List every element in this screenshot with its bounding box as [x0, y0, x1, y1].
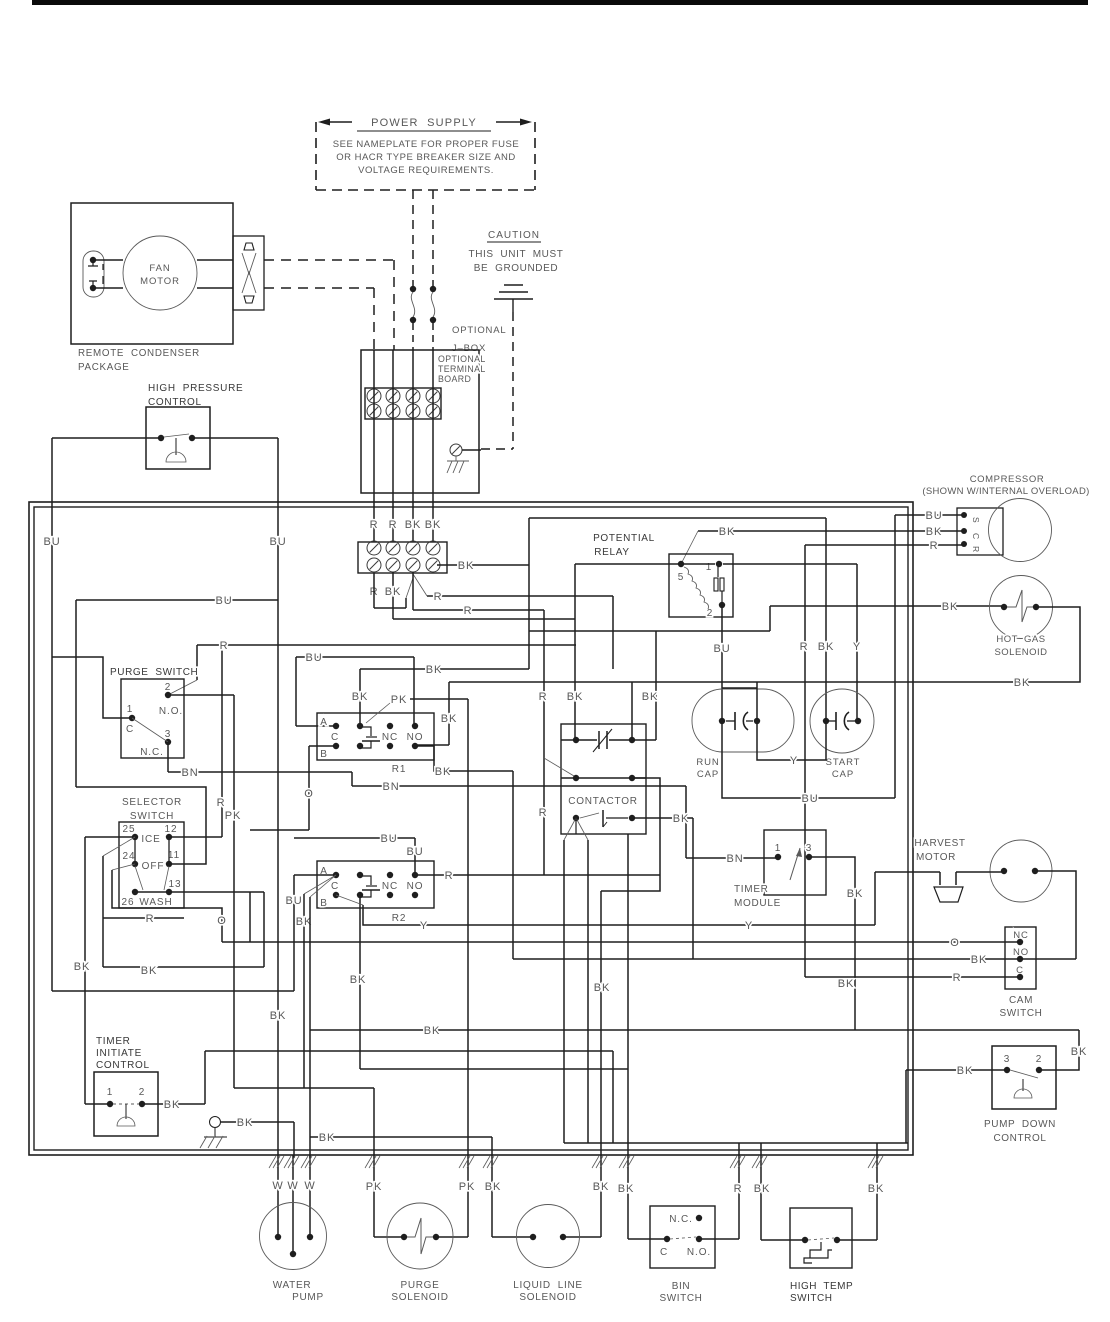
svg-text:MODULE: MODULE — [734, 898, 781, 909]
wire BK lower right bus2 — [564, 1142, 908, 1144]
potential relay contact — [717, 564, 719, 577]
svg-text:C: C — [971, 533, 981, 539]
svg-text:BN: BN — [181, 767, 198, 779]
svg-text:RUN: RUN — [696, 757, 719, 768]
svg-text:PUMP: PUMP — [292, 1292, 324, 1303]
svg-text:B: B — [320, 749, 328, 760]
wire W exits — [277, 1155, 279, 1237]
svg-text:Y: Y — [745, 920, 753, 932]
svg-text:INITIATE: INITIATE — [96, 1048, 142, 1059]
svg-text:BK: BK — [352, 691, 368, 703]
svg-text:B: B — [320, 898, 328, 909]
wire dashed J-box to terminal board — [412, 323, 414, 350]
svg-text:R: R — [539, 691, 548, 703]
power supply arrows — [322, 121, 352, 123]
svg-text:OPTIONAL: OPTIONAL — [452, 325, 506, 336]
disconnect symbol upper — [244, 243, 254, 250]
svg-text:TIMER: TIMER — [96, 1036, 131, 1047]
svg-text:BK: BK — [141, 965, 157, 977]
potential relay terminal 1 — [716, 561, 722, 567]
pump down switch arm — [1010, 1070, 1038, 1078]
svg-text:NC: NC — [382, 881, 398, 892]
svg-text:NO: NO — [407, 881, 424, 892]
wire BK liquid right — [592, 1156, 607, 1168]
wire BK 25 alt riser — [103, 837, 135, 856]
potential relay coil — [684, 567, 709, 609]
wire dashed fan feed lower — [264, 287, 374, 289]
svg-text:BK: BK — [1014, 677, 1030, 689]
svg-text:PACKAGE: PACKAGE — [78, 362, 130, 373]
svg-text:BK: BK — [485, 1181, 501, 1193]
svg-text:W: W — [272, 1180, 283, 1192]
wire R selector ICE — [221, 645, 223, 837]
svg-text:3: 3 — [165, 729, 171, 740]
svg-text:CAP: CAP — [832, 769, 854, 780]
wire BK R2 down2 — [309, 897, 311, 1137]
high pressure control box — [146, 407, 210, 469]
svg-text:BK: BK — [435, 766, 451, 778]
wire BN purge 3 — [167, 742, 169, 772]
wire BU high pressure right — [192, 437, 278, 439]
wire purge 2 to PK vertical — [168, 694, 234, 696]
potential relay terminal 5 — [678, 561, 684, 567]
svg-text:VOLTAGE REQUIREMENTS.: VOLTAGE REQUIREMENTS. — [358, 165, 494, 176]
wire BK to start cap left — [825, 518, 827, 721]
wire BK ICE 25 left — [85, 836, 135, 838]
run cap outline — [692, 689, 794, 752]
potential relay terminal 2 — [719, 602, 725, 608]
svg-text:COMPRESSOR: COMPRESSOR — [970, 474, 1045, 485]
svg-text:Y: Y — [420, 920, 428, 932]
wire Y harvest left — [875, 871, 940, 873]
svg-text:Y: Y — [853, 641, 861, 653]
harvest motor circle — [990, 840, 1052, 902]
svg-text:BK: BK — [164, 1099, 180, 1111]
svg-text:BK: BK — [319, 1132, 335, 1144]
terminal strip inner — [358, 542, 447, 573]
high temp thermal element — [804, 1242, 832, 1263]
svg-text:WASH: WASH — [139, 897, 172, 908]
J-box splice curls — [411, 292, 434, 317]
wire BK pump down right — [1039, 1030, 1079, 1070]
compressor terminal box — [957, 508, 1003, 555]
svg-text:POTENTIAL: POTENTIAL — [593, 533, 655, 544]
svg-text:HIGH PRESSURE: HIGH PRESSURE — [148, 383, 243, 394]
ground circle lower — [210, 1117, 221, 1128]
svg-text:R: R — [800, 641, 809, 653]
wire R R2 NO — [415, 874, 660, 876]
svg-text:C: C — [331, 881, 339, 892]
wire BK R2 A leaders — [304, 875, 336, 894]
purge switch arm — [132, 718, 168, 742]
wire BK strip to right — [437, 564, 529, 566]
timer initiate control box — [94, 1072, 158, 1136]
svg-text:CAUTION: CAUTION — [488, 230, 540, 241]
svg-text:BK: BK — [426, 664, 442, 676]
wire dashed caution ground — [512, 312, 514, 449]
svg-text:N.O.: N.O. — [159, 706, 183, 717]
svg-text:BK: BK — [1071, 1046, 1087, 1058]
start cap circle — [810, 689, 874, 753]
svg-text:CONTROL: CONTROL — [993, 1133, 1046, 1144]
svg-text:BK: BK — [618, 1183, 634, 1195]
wire BK contactor coil right — [632, 817, 693, 819]
wire BK ground — [221, 1121, 294, 1123]
svg-text:R: R — [389, 519, 398, 531]
svg-text:BK: BK — [237, 1117, 253, 1129]
wire BK cam NO — [513, 958, 1076, 960]
svg-text:R1: R1 — [392, 764, 407, 775]
wire BU PR terminal2 to run cap — [721, 605, 723, 721]
wire BU R2 A — [294, 874, 336, 876]
water pump circle — [260, 1203, 327, 1270]
main enclosure outer box — [29, 502, 913, 1155]
wire fan motor upper — [96, 259, 123, 261]
wire Y R2 B — [336, 895, 363, 905]
svg-text:BK: BK — [673, 813, 689, 825]
wire BU run cap bottom — [722, 721, 895, 798]
wire BK 26 riser — [263, 892, 265, 967]
R1 relay box — [317, 713, 434, 760]
wire BK TIC bus — [205, 1050, 613, 1052]
liquid line solenoid circle — [517, 1205, 580, 1268]
svg-text:SWITCH: SWITCH — [790, 1293, 832, 1304]
wire BK R1 NO riser — [627, 834, 629, 1239]
contactor coil row — [573, 815, 579, 821]
wire R compressor R — [805, 544, 964, 546]
svg-text:MOTOR: MOTOR — [916, 852, 956, 863]
svg-text:S: S — [971, 517, 981, 523]
svg-text:1: 1 — [127, 704, 133, 715]
svg-text:SOLENOID: SOLENOID — [519, 1292, 576, 1303]
wire BK bin left — [619, 1156, 634, 1168]
wire Y vertical to start cap — [856, 564, 858, 721]
svg-text:J–BOX: J–BOX — [452, 343, 486, 354]
svg-text:1: 1 — [775, 843, 781, 854]
wire dashed fan feed upper — [264, 259, 394, 261]
svg-text:PK: PK — [459, 1181, 475, 1193]
wire O branch riser — [249, 892, 251, 942]
svg-text:O: O — [304, 788, 313, 800]
wire BU R1 NO feed — [413, 657, 415, 726]
power supply dashed box — [315, 122, 317, 190]
junction dots optional J-box bottom — [410, 317, 416, 323]
svg-text:N.C.: N.C. — [669, 1214, 693, 1225]
svg-text:BU: BU — [285, 895, 302, 907]
wire BK pump down bus — [310, 1029, 1079, 1031]
wire BU high pressure left — [52, 437, 161, 439]
svg-text:N.O.: N.O. — [687, 1247, 711, 1258]
contactor NC contact row — [561, 739, 597, 741]
wire R vertical right — [804, 545, 806, 977]
wire O selector — [112, 870, 222, 942]
svg-text:BK: BK — [926, 526, 942, 538]
wire BK 25 riser down — [84, 837, 86, 1104]
wire R under selector — [103, 917, 184, 919]
svg-text:R: R — [220, 640, 229, 652]
compressor circle — [989, 499, 1052, 562]
svg-text:BU: BU — [305, 652, 322, 664]
wire R strip col1 down — [373, 573, 375, 608]
svg-text:BK: BK — [847, 888, 863, 900]
wire PK exit left — [373, 1088, 375, 1237]
svg-text:25: 25 — [123, 824, 136, 835]
svg-text:SWITCH: SWITCH — [130, 811, 174, 822]
wire selector 26 13 row — [135, 891, 264, 893]
wire Y between caps — [757, 721, 826, 760]
svg-text:R: R — [434, 591, 443, 603]
R2 relay box — [317, 861, 434, 908]
svg-text:BK: BK — [405, 519, 421, 531]
svg-text:MOTOR: MOTOR — [140, 276, 180, 287]
R1 coil symbol — [360, 727, 371, 736]
svg-text:12: 12 — [165, 824, 178, 835]
svg-text:2: 2 — [165, 682, 171, 693]
R2 coil symbol — [360, 876, 371, 885]
svg-text:BN: BN — [382, 781, 399, 793]
wire OFF 11 — [76, 787, 206, 864]
wire R purge riser — [196, 645, 198, 680]
svg-text:CONTACTOR: CONTACTOR — [568, 796, 638, 807]
svg-text:SWITCH: SWITCH — [659, 1293, 702, 1304]
wire PR terminal1 left drop — [575, 563, 715, 565]
svg-text:BU: BU — [801, 793, 818, 805]
wire dashed power feed L2 — [432, 190, 434, 286]
wires through terminal board — [373, 350, 375, 542]
wire BK lower right bus — [310, 1136, 492, 1138]
svg-text:13: 13 — [169, 879, 182, 890]
svg-text:CAM: CAM — [1009, 995, 1033, 1006]
svg-text:R: R — [953, 972, 962, 984]
svg-text:O: O — [950, 937, 959, 949]
svg-text:R: R — [971, 546, 981, 552]
svg-text:FAN: FAN — [149, 263, 170, 274]
svg-text:R2: R2 — [392, 913, 407, 924]
svg-text:THIS UNIT MUST: THIS UNIT MUST — [469, 249, 564, 260]
svg-text:W: W — [304, 1180, 315, 1192]
svg-text:CAP: CAP — [697, 769, 719, 780]
svg-text:BK: BK — [754, 1183, 770, 1195]
svg-text:C: C — [331, 732, 339, 743]
svg-text:ICE: ICE — [141, 834, 160, 845]
start cap capacitor — [823, 718, 829, 724]
wire BK high temp right — [876, 1143, 878, 1240]
svg-text:R: R — [146, 913, 155, 925]
svg-text:C: C — [126, 724, 134, 735]
wire BK liquid left — [491, 1137, 493, 1237]
svg-text:5: 5 — [678, 572, 684, 583]
wire BU horizontal to purge area — [76, 599, 278, 601]
svg-text:BK: BK — [424, 1025, 440, 1037]
svg-text:BK: BK — [425, 519, 441, 531]
wire selector 24 leader — [112, 864, 135, 870]
harvest motor mount — [939, 872, 941, 885]
wire R cam C — [805, 976, 1020, 978]
wire BK pump down left — [906, 1069, 1007, 1071]
fan motor plug — [83, 251, 104, 297]
svg-text:SEE NAMEPLATE FOR PROPER FUSE: SEE NAMEPLATE FOR PROPER FUSE — [333, 139, 519, 150]
selector switch box — [119, 822, 184, 908]
svg-text:NO: NO — [407, 732, 424, 743]
wire BK W2 drop — [293, 1122, 295, 1158]
wire dashed power feed L1 — [412, 190, 414, 286]
wire contactor row2 right — [601, 778, 660, 891]
wire BU left vertical — [51, 438, 53, 991]
selector switch arms — [135, 866, 143, 890]
purge solenoid contacts — [401, 1234, 407, 1240]
wire contactor coil drops — [563, 840, 565, 1143]
wire O R1 C — [309, 745, 336, 747]
svg-text:PK: PK — [366, 1181, 382, 1193]
wire BK R1 NO bottom — [415, 746, 513, 771]
svg-text:OPTIONAL: OPTIONAL — [438, 354, 486, 364]
svg-text:(SHOWN W/INTERNAL OVERLOAD): (SHOWN W/INTERNAL OVERLOAD) — [922, 486, 1089, 497]
svg-text:BK: BK — [270, 1010, 286, 1022]
svg-text:BK: BK — [350, 974, 366, 986]
svg-text:BK: BK — [441, 713, 457, 725]
svg-text:LIQUID LINE: LIQUID LINE — [513, 1280, 583, 1291]
selector switch bars — [134, 837, 136, 864]
svg-text:OR HACR TYPE BREAKER SIZE AND: OR HACR TYPE BREAKER SIZE AND — [336, 152, 516, 163]
svg-text:BK: BK — [594, 982, 610, 994]
svg-text:NC: NC — [382, 732, 398, 743]
pump down control box — [992, 1046, 1056, 1109]
wire BK strip col2 jog — [392, 572, 394, 619]
svg-text:BU: BU — [380, 833, 397, 845]
wire BK TIC 2 — [142, 1103, 205, 1105]
wire BU right vertical — [277, 438, 279, 1155]
harvest motor terminals — [1001, 868, 1007, 874]
liquid line solenoid contacts — [530, 1234, 536, 1240]
svg-text:BU: BU — [406, 846, 423, 858]
svg-text:HARVEST: HARVEST — [914, 838, 965, 849]
wire BK timer 3 — [809, 857, 855, 1030]
disconnect box — [233, 236, 264, 310]
svg-text:26: 26 — [122, 897, 135, 908]
ground screw terminal board — [450, 444, 462, 456]
svg-text:R: R — [930, 540, 939, 552]
contactor box — [561, 724, 646, 834]
svg-text:OFF: OFF — [142, 861, 165, 872]
wire BK compressor C — [698, 530, 964, 532]
potential relay box — [669, 554, 733, 617]
wire purge C — [52, 657, 132, 718]
wire BK R2 coil bottom — [359, 895, 361, 1069]
svg-text:SELECTOR: SELECTOR — [122, 797, 182, 808]
wire R ICE 12 right — [169, 836, 222, 838]
chassis ground symbol lower — [214, 1128, 216, 1137]
wire R mid — [427, 595, 613, 597]
wire BN timer — [686, 857, 778, 859]
svg-text:11: 11 — [168, 850, 180, 861]
wire BK R2 down — [303, 894, 305, 1088]
wire BK W3 drop — [309, 1137, 311, 1158]
svg-text:WATER: WATER — [273, 1280, 312, 1291]
svg-text:R: R — [464, 605, 473, 617]
svg-text:BK: BK — [838, 978, 854, 990]
svg-text:BK: BK — [567, 691, 583, 703]
wire BK liquid feed drop — [600, 891, 602, 1237]
wire BU R2 NO — [294, 837, 415, 839]
hot gas solenoid contacts — [1001, 604, 1007, 610]
main enclosure inner box — [34, 507, 908, 1150]
svg-text:BK: BK — [642, 691, 658, 703]
svg-text:R: R — [445, 870, 454, 882]
wire fan motor lower — [96, 287, 123, 289]
wire PK vertical — [233, 695, 235, 1088]
disconnect symbol lower — [244, 296, 254, 303]
wire BK harvest right — [1035, 871, 1076, 959]
svg-text:BK: BK — [458, 560, 474, 572]
svg-text:BU: BU — [215, 595, 232, 607]
wire BU down to selector area — [75, 600, 77, 787]
svg-text:R: R — [539, 807, 548, 819]
svg-text:SOLENOID: SOLENOID — [994, 647, 1047, 658]
wire BK contactor coil drop right — [692, 818, 694, 959]
bin switch box — [650, 1206, 715, 1268]
svg-text:BK: BK — [957, 1065, 973, 1077]
svg-text:BK: BK — [868, 1183, 884, 1195]
hot gas solenoid circle — [990, 576, 1053, 639]
svg-text:BU: BU — [713, 643, 730, 655]
high temp switch box — [790, 1208, 852, 1268]
high pressure control contacts — [158, 435, 164, 441]
top border bar — [32, 0, 1088, 5]
svg-text:REMOTE CONDENSER: REMOTE CONDENSER — [78, 348, 200, 359]
earth ground symbol — [504, 284, 523, 286]
svg-text:BU: BU — [43, 536, 60, 548]
svg-text:C: C — [660, 1247, 668, 1258]
svg-text:PURGE SWITCH: PURGE SWITCH — [110, 667, 198, 678]
compressor terminals — [961, 512, 967, 518]
junction dots optional J-box top — [410, 286, 416, 292]
cam switch box — [1005, 927, 1036, 989]
wire contactor NC right riser — [655, 631, 657, 740]
wire BK lower jog — [103, 966, 264, 968]
svg-text:2: 2 — [707, 608, 713, 619]
svg-text:2: 2 — [1036, 1054, 1042, 1065]
wire BU compressor vertical — [894, 515, 896, 798]
run cap jog wire — [756, 682, 758, 721]
wire BK contactor right feed — [631, 682, 633, 740]
svg-text:START: START — [826, 757, 861, 768]
wire BK purge feed — [234, 1087, 374, 1089]
wire BK contactor left feed — [574, 564, 576, 740]
wire BK selector to TIC — [85, 1103, 110, 1105]
svg-text:PK: PK — [391, 694, 407, 706]
wire BU R1 A — [296, 656, 414, 658]
svg-text:O: O — [217, 915, 226, 927]
svg-text:A: A — [320, 717, 328, 728]
svg-text:24: 24 — [123, 851, 136, 862]
svg-text:3: 3 — [806, 843, 812, 854]
wire BU compressor S — [895, 514, 964, 516]
svg-text:W: W — [287, 1180, 298, 1192]
svg-text:BIN: BIN — [672, 1281, 690, 1292]
svg-text:BU: BU — [925, 510, 942, 522]
svg-text:HOT GAS: HOT GAS — [996, 634, 1045, 645]
svg-text:2: 2 — [139, 1087, 145, 1098]
wire R long — [412, 572, 414, 610]
wire PK R1 coil to purge solenoid — [410, 698, 468, 700]
water pump terminals — [275, 1234, 281, 1240]
svg-text:R: R — [217, 797, 226, 809]
svg-text:BK: BK — [971, 954, 987, 966]
wire BK high temp left — [760, 1143, 762, 1240]
wire O cam NC — [222, 941, 1020, 943]
svg-text:BK: BK — [942, 601, 958, 613]
svg-text:R: R — [370, 519, 379, 531]
